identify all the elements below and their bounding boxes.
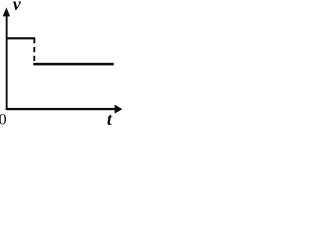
y-axis arrowhead bbox=[3, 7, 10, 16]
waveform upper segment bbox=[7, 37, 36, 39]
svg-text:0: 0 bbox=[0, 111, 7, 127]
svg-text:t: t bbox=[107, 109, 113, 127]
x-axis arrowhead bbox=[115, 105, 123, 114]
x-axis bbox=[6, 108, 116, 110]
waveform lower segment bbox=[33, 63, 113, 66]
svg-text:v: v bbox=[13, 0, 22, 14]
y-axis bbox=[6, 13, 8, 110]
step dashed line bbox=[33, 38, 35, 64]
